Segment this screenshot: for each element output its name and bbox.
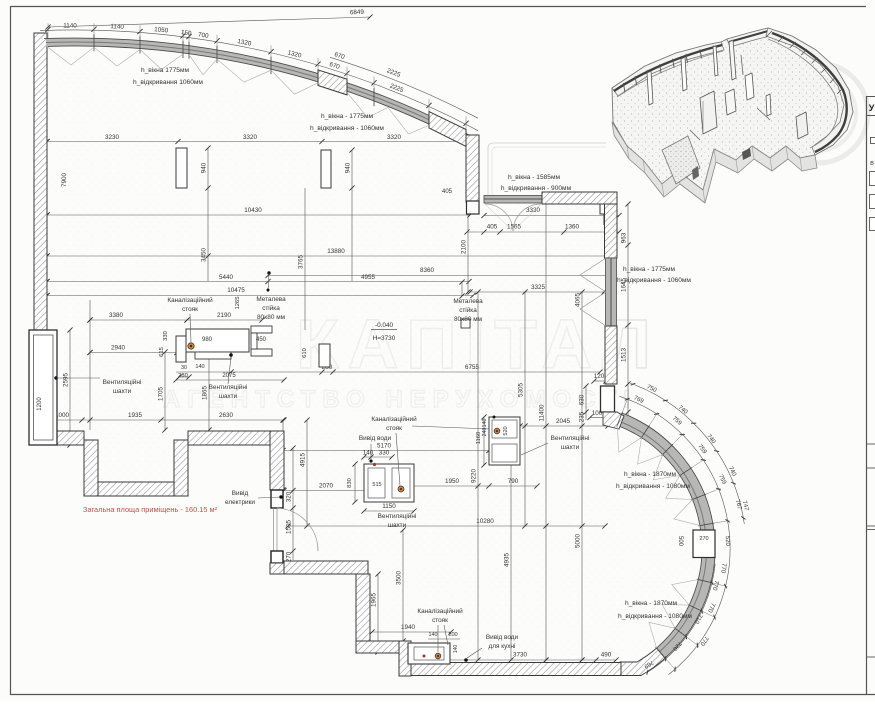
top curve wall piers (hatched) <box>318 70 347 95</box>
svg-text:h_відкривання - 1060мм: h_відкривання - 1060мм <box>310 124 384 132</box>
svg-text:80х80 мм: 80х80 мм <box>454 316 482 323</box>
step down block <box>399 641 411 676</box>
axon: interior partitions and columns <box>647 71 653 105</box>
door jamb bottom <box>271 551 283 563</box>
svg-text:790: 790 <box>508 478 519 485</box>
svg-text:Вивід: Вивід <box>232 489 249 497</box>
svg-text:3450: 3450 <box>201 248 208 263</box>
window opening h1585 (top) <box>484 196 542 204</box>
svg-text:10280: 10280 <box>476 518 494 525</box>
inner step notch <box>600 204 604 225</box>
top-right horizontal wall band <box>542 192 617 204</box>
svg-text:5440: 5440 <box>219 274 234 281</box>
svg-text:11400: 11400 <box>539 404 546 422</box>
svg-text:8360: 8360 <box>420 267 435 274</box>
bottom wall long band <box>411 663 621 676</box>
svg-text:У: У <box>869 103 875 113</box>
top curve dimension arcs <box>40 30 478 131</box>
svg-text:Загальна площа приміщень - 160: Загальна площа приміщень - 160.15 м² <box>83 505 218 514</box>
legend table left border <box>866 96 868 695</box>
svg-text:2070: 2070 <box>319 483 334 490</box>
svg-text:h_вікна - 1870мм: h_вікна - 1870мм <box>625 599 678 607</box>
svg-text:2940: 2940 <box>111 345 126 352</box>
svg-text:Металева: Металева <box>256 296 286 303</box>
svg-text:330: 330 <box>163 331 169 341</box>
svg-text:Вивід води: Вивід води <box>359 434 392 442</box>
svg-text:h_відкривання 1060мм: h_відкривання 1060мм <box>133 78 203 86</box>
svg-text:2630: 2630 <box>219 412 234 419</box>
svg-text:h_відкривання - 1080мм: h_відкривання - 1080мм <box>618 612 692 620</box>
svg-text:3380: 3380 <box>109 312 124 319</box>
pier box on curve right-most point <box>693 530 715 558</box>
curve window triangles <box>617 425 641 452</box>
svg-text:610: 610 <box>302 348 308 358</box>
svg-text:963: 963 <box>621 232 628 243</box>
notch bottom wall <box>98 482 188 496</box>
notch right vertical wall <box>174 440 188 496</box>
watermark circle logo <box>768 63 868 163</box>
window jamb box below corner wall <box>467 201 480 214</box>
svg-text:Каналізаційний: Каналізаційний <box>417 607 463 615</box>
wall below door / band to x368 <box>270 563 284 574</box>
svg-text:4065: 4065 <box>575 293 582 308</box>
svg-text:шахти: шахти <box>219 393 238 400</box>
svg-text:520: 520 <box>503 426 509 435</box>
svg-text:Н=3730: Н=3730 <box>373 335 396 342</box>
svg-text:Металева: Металева <box>453 298 483 305</box>
horizontal dimension chains <box>47 141 466 143</box>
svg-text:405: 405 <box>487 224 498 231</box>
svg-text:980: 980 <box>202 337 213 343</box>
svg-text:стояк: стояк <box>386 425 402 432</box>
svg-text:h_вікна 1775мм: h_вікна 1775мм <box>141 66 190 74</box>
notch left vertical wall <box>84 440 98 496</box>
svg-text:1513: 1513 <box>621 348 628 363</box>
right wall lower hatched segment <box>605 326 617 384</box>
svg-text:30: 30 <box>181 365 187 371</box>
svg-text:шахти: шахти <box>561 444 580 451</box>
top curve window module ticks <box>93 34 95 51</box>
svg-text:Каналізаційний: Каналізаційний <box>167 296 213 304</box>
svg-text:стійка: стійка <box>262 304 280 312</box>
svg-text:940: 940 <box>201 162 208 173</box>
svg-text:h_вікна - 1870мм: h_вікна - 1870мм <box>624 470 677 478</box>
interior column 2 <box>321 150 331 188</box>
svg-text:6849: 6849 <box>350 9 365 17</box>
svg-text:235: 235 <box>579 411 586 422</box>
svg-text:140: 140 <box>195 364 204 370</box>
sewer riser dot K1 <box>188 343 194 349</box>
svg-text:електрики: електрики <box>225 499 255 506</box>
overall dim 6849 <box>48 17 370 27</box>
svg-text:1200: 1200 <box>37 397 43 411</box>
svg-text:1050: 1050 <box>154 26 169 34</box>
svg-text:Вентиляційні: Вентиляційні <box>378 512 417 520</box>
wall above door <box>270 431 284 490</box>
svg-text:стояк: стояк <box>182 306 198 313</box>
top curve window opening triangles <box>48 47 94 65</box>
svg-text:630: 630 <box>579 394 586 405</box>
vent unit K2 (two boxes) <box>364 464 414 502</box>
svg-text:280: 280 <box>178 373 188 379</box>
svg-text:13880: 13880 <box>327 248 345 255</box>
curve window module ticks <box>617 412 623 427</box>
svg-text:830: 830 <box>347 478 353 488</box>
svg-text:1505: 1505 <box>286 520 293 535</box>
svg-text:h_вікна - 1585мм: h_вікна - 1585мм <box>508 173 561 181</box>
svg-text:h_відкривання - 900мм: h_відкривання - 900мм <box>501 184 572 192</box>
node dot left shaft <box>54 376 57 379</box>
svg-text:140: 140 <box>453 645 459 654</box>
svg-text:4915: 4915 <box>300 453 307 468</box>
svg-text:3730: 3730 <box>513 652 528 659</box>
svg-text:3230: 3230 <box>105 134 120 141</box>
right wall pier box <box>601 386 615 412</box>
svg-text:1965: 1965 <box>371 593 378 608</box>
svg-text:шахти: шахти <box>113 388 132 395</box>
svg-text:3500: 3500 <box>396 571 403 586</box>
svg-text:h_вікна - 1775мм: h_вікна - 1775мм <box>623 265 676 273</box>
svg-text:3320: 3320 <box>387 134 402 141</box>
left ventilation shaft box <box>29 330 57 445</box>
left exterior wall <box>34 33 47 330</box>
svg-text:1265: 1265 <box>235 297 241 310</box>
svg-text:Вентиляційні: Вентиляційні <box>209 383 248 391</box>
svg-text:1140: 1140 <box>110 23 124 31</box>
svg-text:405: 405 <box>442 189 453 195</box>
big right curved wall band <box>620 419 709 653</box>
svg-text:6755: 6755 <box>465 364 480 371</box>
svg-text:1950: 1950 <box>445 478 460 485</box>
svg-text:4955: 4955 <box>361 274 376 281</box>
svg-text:270: 270 <box>699 536 708 542</box>
svg-text:3325: 3325 <box>531 284 546 291</box>
svg-text:Вивід води: Вивід води <box>486 633 519 641</box>
svg-text:2100: 2100 <box>461 240 468 255</box>
svg-text:615: 615 <box>159 347 165 357</box>
legend item symbols <box>871 138 875 144</box>
svg-text:1935: 1935 <box>128 412 143 419</box>
svg-text:200: 200 <box>448 632 457 638</box>
svg-text:520: 520 <box>724 536 731 547</box>
vertical dimension chains <box>46 88 48 430</box>
door swing arc <box>277 508 318 551</box>
axon: curved window wall right <box>766 28 853 155</box>
svg-text:7900: 7900 <box>61 173 68 188</box>
svg-text:140: 140 <box>363 450 374 457</box>
interior column 1 <box>176 148 187 188</box>
vertical wall x356-370 <box>356 574 370 641</box>
svg-text:140: 140 <box>482 419 488 428</box>
svg-text:320: 320 <box>286 491 293 502</box>
svg-text:10475: 10475 <box>227 287 245 294</box>
svg-text:940: 940 <box>345 162 352 173</box>
svg-text:515: 515 <box>372 482 381 488</box>
kitchen/vent unit K1 <box>186 329 249 352</box>
small metal post (center-right) <box>461 319 470 328</box>
svg-text:1865: 1865 <box>202 386 209 401</box>
right wall window triangles <box>580 258 606 292</box>
svg-text:3320: 3320 <box>243 134 258 141</box>
curve top junction wedge (hatched) <box>603 412 624 429</box>
3D axonometric inset view <box>612 28 853 203</box>
svg-text:2190: 2190 <box>217 312 232 319</box>
svg-text:5000: 5000 <box>575 534 582 549</box>
svg-text:4935: 4935 <box>504 553 511 568</box>
curve bottom junction wedge (hatched) <box>620 648 665 675</box>
svg-text:240: 240 <box>482 428 488 437</box>
window swing arcs <box>485 204 513 231</box>
right wall window segment <box>606 258 617 326</box>
right curve dimension arcs <box>619 396 730 674</box>
svg-text:450: 450 <box>256 337 267 343</box>
svg-text:5170: 5170 <box>377 443 392 450</box>
svg-text:стояк: стояк <box>432 617 448 624</box>
svg-text:500: 500 <box>677 536 683 547</box>
apartment floor speckle texture <box>47 48 697 662</box>
svg-text:9220: 9220 <box>471 469 478 484</box>
svg-text:150: 150 <box>181 29 193 37</box>
svg-text:3330: 3330 <box>526 207 541 214</box>
svg-text:1360: 1360 <box>565 224 580 231</box>
top-right corner wall, vertical segment <box>466 135 479 202</box>
metal post fork K1 right <box>251 326 272 333</box>
svg-text:стійка: стійка <box>459 306 477 314</box>
svg-text:2595: 2595 <box>63 373 70 388</box>
svg-text:h_вікна - 1775мм: h_вікна - 1775мм <box>321 112 374 120</box>
svg-text:h_відкривання - 1060мм: h_відкривання - 1060мм <box>617 276 691 284</box>
faint balcony slab outline (top-right room) <box>488 143 606 203</box>
svg-text:шахти: шахти <box>388 522 407 529</box>
svg-text:h_відкривання - 1080мм: h_відкривання - 1080мм <box>616 482 690 490</box>
svg-text:5305: 5305 <box>518 383 525 398</box>
svg-text:Вентиляційні: Вентиляційні <box>103 378 142 386</box>
kitchen water outlet box (bottom) <box>408 643 450 664</box>
svg-text:Вентиляційні: Вентиляційні <box>551 434 590 442</box>
svg-text:490: 490 <box>601 652 612 659</box>
bottom-left walls <box>57 431 84 445</box>
legend row lines <box>867 443 875 445</box>
vent unit K3 (stacked boxes) <box>489 417 520 465</box>
svg-text:140: 140 <box>429 632 438 638</box>
svg-text:1150: 1150 <box>382 503 396 510</box>
right exterior wall segments <box>605 204 618 258</box>
svg-text:330: 330 <box>379 450 390 457</box>
legend header row <box>867 96 875 98</box>
svg-text:10430: 10430 <box>244 207 262 214</box>
svg-text:2045: 2045 <box>556 418 571 425</box>
axon: curved window wall top-left <box>612 42 724 96</box>
band to step <box>356 641 399 653</box>
svg-text:120: 120 <box>594 373 605 380</box>
page border frame <box>10 6 12 695</box>
svg-text:1705: 1705 <box>158 387 165 402</box>
svg-text:для кухні: для кухні <box>489 642 516 650</box>
svg-text:-0.040: -0.040 <box>375 322 394 329</box>
svg-text:в: в <box>870 160 874 167</box>
svg-text:Каналізаційний: Каналізаційний <box>371 415 417 423</box>
svg-text:3765: 3765 <box>298 255 305 270</box>
interior column 3 (small lower) <box>319 344 330 367</box>
door jamb top <box>271 490 283 508</box>
bottom wall toward door <box>188 431 270 445</box>
door opening lines <box>273 508 275 551</box>
top curved window wall band <box>46 42 467 138</box>
